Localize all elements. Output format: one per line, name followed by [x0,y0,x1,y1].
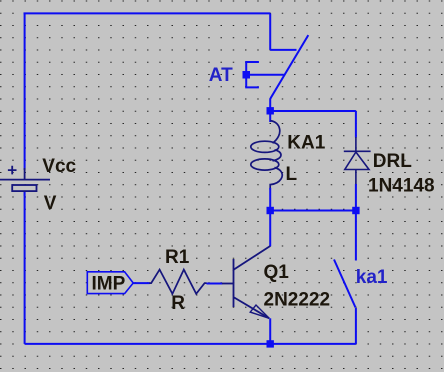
junction J2 [267,207,274,214]
diode DRL [344,137,371,185]
wire J1 to diode branch [270,110,356,112]
wire IMP to resistor [133,282,150,284]
svg-text:IMP: IMP [92,274,126,295]
svg-text:1N4148: 1N4148 [368,175,435,196]
svg-text:KA1: KA1 [287,133,325,154]
wire left vertical top [24,13,26,170]
junction J3 [352,207,359,214]
port IMP [87,272,133,294]
wire diode top vertical [355,111,357,138]
svg-text:AT: AT [209,65,233,86]
wire switch-top vertical [269,13,271,50]
wire left vertical bottom [24,192,26,344]
wire base wire [207,283,223,285]
wire ka1 bottom vertical [355,308,357,344]
svg-text:V: V [44,193,57,214]
inductor KA1 [251,121,282,190]
wire coil top stub [269,111,271,122]
svg-text:2N2222: 2N2222 [264,290,331,311]
transistor Q1 [222,246,270,318]
junction J4 [267,340,274,347]
svg-text:R: R [171,293,185,314]
wire bottom rail [25,343,356,345]
wire collector vertical [269,213,271,246]
junction J1 [267,107,274,114]
switch AT [246,35,308,111]
wire diode bottom stub [355,184,357,211]
svg-text:Q1: Q1 [264,262,290,283]
svg-text:DRL: DRL [373,151,412,172]
svg-text:L: L [286,164,298,185]
svg-text:R1: R1 [165,247,190,268]
wire emitter vertical [269,318,271,344]
resistor R1 [149,270,206,294]
svg-text:Vcc: Vcc [42,156,76,177]
wire coil bottom stub [269,188,271,211]
wire top horizontal [24,12,271,14]
battery V [0,166,50,196]
svg-text:ka1: ka1 [356,267,388,288]
wire coil-diode bottom horizontal [270,210,356,212]
relay contact ka1 [334,260,356,308]
wire ka1 top vertical [355,211,357,261]
